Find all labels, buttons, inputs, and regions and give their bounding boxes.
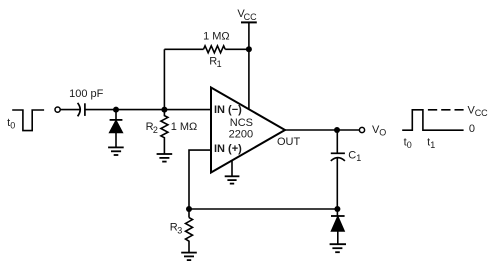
svg-text:2: 2 xyxy=(153,125,158,135)
svg-text:1: 1 xyxy=(356,153,361,163)
svg-text:CC: CC xyxy=(475,108,488,118)
svg-text:1: 1 xyxy=(430,140,435,150)
svg-text:2200: 2200 xyxy=(229,129,253,141)
svg-text:OUT: OUT xyxy=(277,136,301,148)
svg-text:1 MΩ: 1 MΩ xyxy=(203,30,230,42)
svg-text:3: 3 xyxy=(177,225,182,235)
svg-text:0: 0 xyxy=(10,121,15,131)
svg-text:O: O xyxy=(379,128,386,138)
svg-text:IN (−): IN (−) xyxy=(214,104,242,116)
svg-text:IN (+): IN (+) xyxy=(214,143,242,155)
svg-text:0: 0 xyxy=(407,140,412,150)
svg-text:CC: CC xyxy=(244,12,257,22)
svg-text:NCS: NCS xyxy=(230,117,253,129)
svg-text:0: 0 xyxy=(469,123,475,135)
svg-text:100 pF: 100 pF xyxy=(69,88,104,100)
svg-text:1: 1 xyxy=(217,59,222,69)
svg-text:1 MΩ: 1 MΩ xyxy=(171,121,198,133)
svg-text:C: C xyxy=(348,149,356,161)
